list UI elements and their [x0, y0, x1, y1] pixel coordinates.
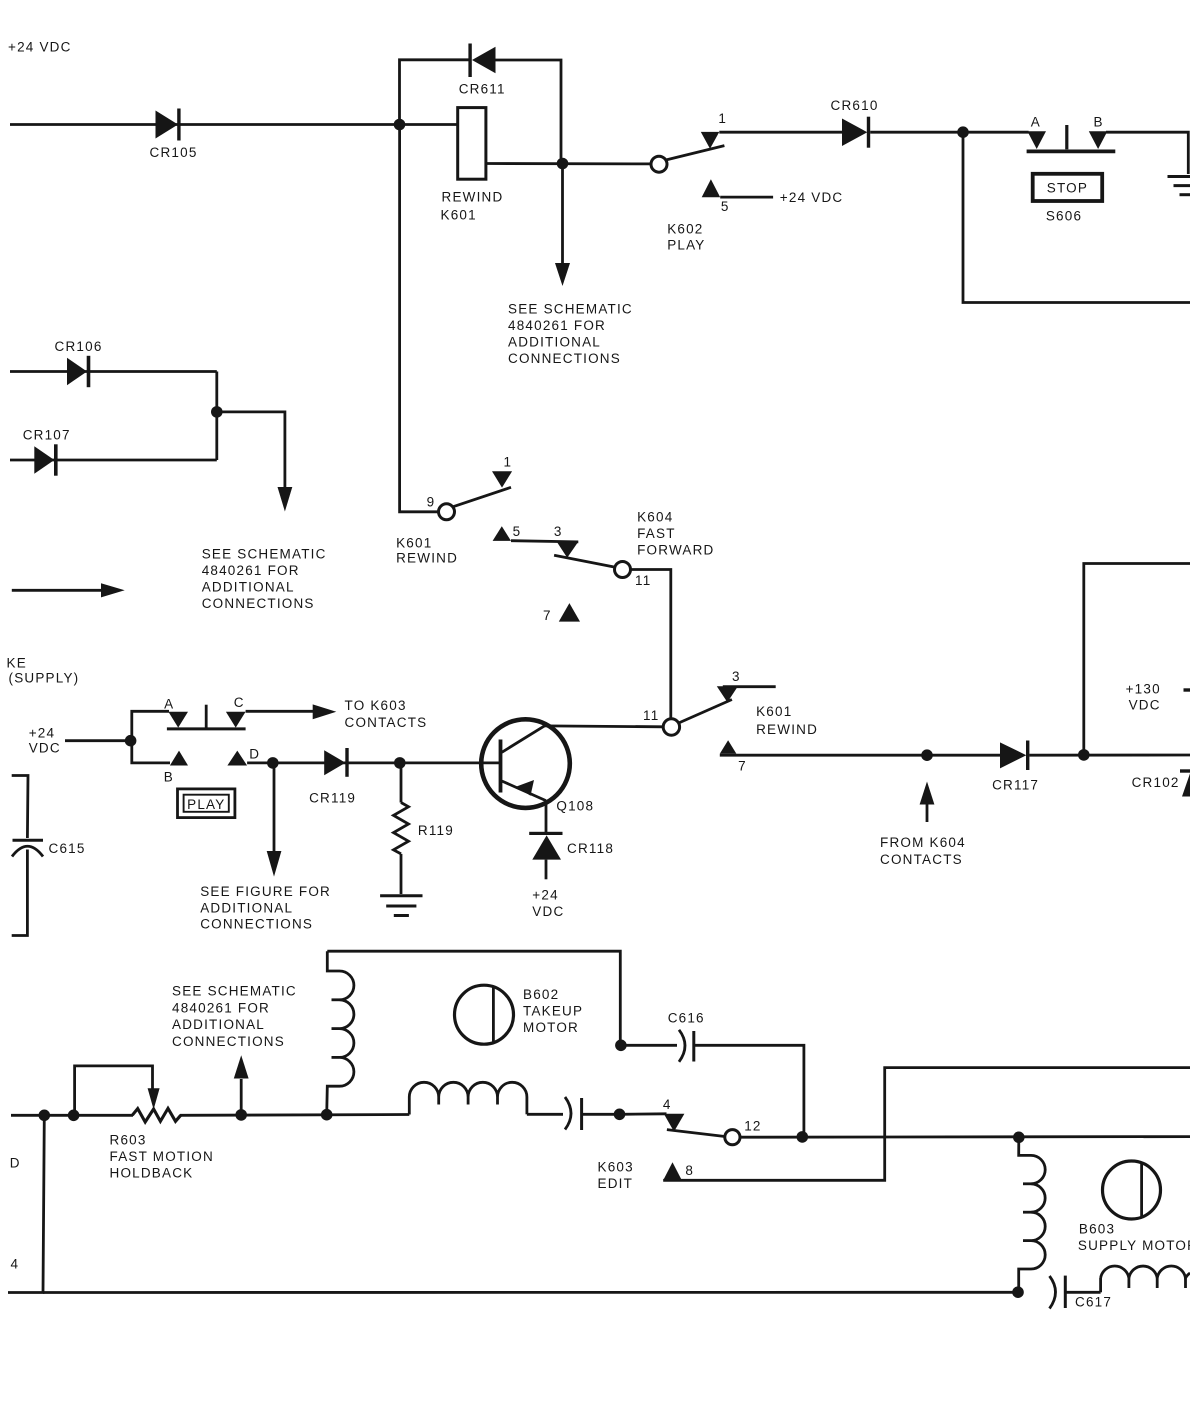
svg-text:CR102: CR102 [1132, 775, 1180, 790]
diode CR610 [831, 98, 879, 148]
wire: Q108 collector to switch 11 [544, 725, 664, 729]
svg-text:C616: C616 [668, 1011, 705, 1026]
wire: +24 VDC to relay contacts [65, 739, 132, 742]
svg-text:ADDITIONAL: ADDITIONAL [200, 900, 293, 915]
contact 1 of K602 [701, 132, 720, 149]
svg-text:FAST MOTION: FAST MOTION [110, 1149, 214, 1164]
relay contact D [227, 751, 247, 766]
switch K604 arm to pole 11 [554, 555, 618, 568]
wire: contact C arrow to K603 contacts [246, 710, 314, 713]
node +24 VDC (play relay feed) [29, 726, 61, 756]
relay contact B [170, 751, 188, 766]
svg-text:7: 7 [738, 758, 747, 773]
svg-text:CR105: CR105 [150, 145, 198, 160]
svg-text:11: 11 [643, 708, 659, 723]
svg-text:4840261 FOR: 4840261 FOR [202, 563, 300, 578]
svg-text:K602: K602 [667, 222, 703, 237]
svg-text:REWIND: REWIND [756, 722, 818, 737]
contact 8 of K603 (stub) [663, 1162, 682, 1180]
svg-text:TAKEUP: TAKEUP [523, 1004, 583, 1019]
svg-text:C: C [234, 695, 245, 710]
svg-text:(SUPPLY): (SUPPLY) [9, 671, 80, 686]
capacitor C617 [1050, 1276, 1113, 1310]
svg-text:8: 8 [685, 1163, 694, 1178]
svg-text:1: 1 [504, 454, 513, 469]
wire: contact 5 to contact 3 bar [511, 541, 578, 542]
switch S606 movable bar [1027, 149, 1116, 153]
wire: pole 12 to B603 line [740, 1135, 1190, 1138]
diode CR105 [150, 109, 198, 161]
svg-text:Q108: Q108 [556, 799, 594, 814]
svg-text:SEE SCHEMATIC: SEE SCHEMATIC [508, 302, 633, 317]
svg-text:4: 4 [663, 1097, 672, 1112]
svg-text:KE: KE [7, 655, 27, 670]
svg-text:K601: K601 [396, 535, 432, 550]
svg-text:CONNECTIONS: CONNECTIONS [508, 351, 621, 366]
svg-text:ADDITIONAL: ADDITIONAL [508, 335, 601, 350]
wire: bottom AC line [43, 1291, 1020, 1294]
wire: contact 7 to CR117 and +130 VDC [720, 754, 1000, 757]
wire: B602 top feed [327, 951, 620, 1045]
diode CR119 [309, 748, 356, 806]
svg-text:K603: K603 [598, 1160, 634, 1175]
svg-text:CR118: CR118 [567, 841, 614, 856]
note: FROM K604 CONTACTS [880, 835, 966, 867]
node: junction CR105 wire / CR611 branch [394, 119, 406, 131]
svg-text:CONTACTS: CONTACTS [345, 715, 428, 730]
svg-text:11: 11 [635, 573, 651, 588]
wire: arrow down to see-figure note [273, 763, 276, 853]
svg-text:A: A [164, 697, 174, 712]
svg-text:S606: S606 [1046, 208, 1082, 223]
wire: long vertical from top junction down to K601 rewind switch [400, 125, 439, 512]
relay contact C [226, 712, 246, 728]
svg-text:VDC: VDC [29, 741, 61, 756]
diode CR106 [10, 339, 217, 387]
wire: K604 pole 11 down to K601 rewind switch 11 [631, 570, 671, 720]
svg-text:D: D [249, 747, 260, 762]
node: junction from K604 contacts [921, 749, 933, 761]
svg-text:CR119: CR119 [309, 791, 356, 806]
node +130 VDC label [1126, 681, 1190, 712]
svg-text:R603: R603 [110, 1133, 147, 1148]
svg-text:9: 9 [427, 495, 436, 510]
svg-text:R119: R119 [418, 823, 454, 838]
svg-text:4: 4 [11, 1257, 20, 1272]
svg-text:+24 VDC: +24 VDC [8, 40, 72, 55]
resistor R119 [394, 763, 454, 894]
svg-text:4840261 FOR: 4840261 FOR [508, 318, 606, 333]
svg-text:EDIT: EDIT [598, 1176, 634, 1191]
wire: arrow down to see-schematic note (left) [217, 412, 285, 489]
svg-text:CR610: CR610 [831, 98, 879, 113]
node: junction capacitor / K603 contact 4 [614, 1109, 626, 1121]
wire: main AC line (bottom left) [11, 1114, 133, 1117]
node: junction before S606 [957, 126, 969, 138]
wire: CR611 to right vertical [496, 60, 562, 163]
svg-text:5: 5 [721, 199, 730, 214]
label K603 EDIT [598, 1160, 634, 1191]
svg-text:SUPPLY MOTOR: SUPPLY MOTOR [1078, 1238, 1190, 1253]
wire: up from junction to CR611 [400, 60, 470, 125]
svg-text:VDC: VDC [532, 904, 564, 919]
note: TO K603 CONTACTS [345, 698, 428, 730]
node: junction see-schematic arrow [235, 1109, 247, 1121]
svg-text:3: 3 [732, 669, 741, 684]
relay contact A [168, 712, 188, 728]
diode CR107 [10, 428, 217, 476]
node: junction left vertical [39, 1110, 51, 1122]
pushbutton S606 STOP [1033, 174, 1103, 224]
wire: CR106/CR107 tie vertical [215, 372, 218, 461]
note: see schematic 4840261 (left) [202, 547, 327, 612]
switch S606 STOP contact A [1027, 131, 1046, 149]
label K601 REWIND (lower switch) [756, 704, 818, 737]
node: junction B602 winding [321, 1109, 333, 1121]
svg-text:K601: K601 [441, 208, 477, 223]
capacitor C616 [621, 1011, 804, 1133]
svg-text:K604: K604 [637, 509, 673, 524]
node: junction below D [267, 757, 279, 769]
inductor: B603 main winding (vertical coil) [1019, 1137, 1045, 1292]
svg-text:C615: C615 [49, 841, 86, 856]
label K602 PLAY [667, 222, 705, 253]
node: junction R603 bypass [68, 1110, 80, 1122]
node: junction CR117 / +130 branch [1078, 749, 1090, 761]
svg-text:C617: C617 [1075, 1295, 1112, 1310]
svg-text:CONNECTIONS: CONNECTIONS [172, 1034, 285, 1049]
svg-text:PLAY: PLAY [667, 238, 705, 253]
wire: contact 8 runout [663, 1068, 1190, 1181]
wire: Q108 emitter down [545, 801, 548, 833]
note: see schematic 4840261 (bottom) [172, 984, 297, 1049]
svg-text:MOTOR: MOTOR [523, 1020, 579, 1035]
svg-text:TO K603: TO K603 [345, 698, 407, 713]
ground (below R119) [380, 896, 422, 916]
wire: arrow down to see-schematic note [561, 164, 564, 267]
svg-text:VDC: VDC [1129, 697, 1161, 712]
svg-text:A: A [1031, 114, 1041, 129]
contact 7 of lower K601 switch [720, 740, 737, 754]
svg-text:CONNECTIONS: CONNECTIONS [200, 917, 313, 932]
wire: contact 1 to CR610 [719, 131, 842, 134]
svg-text:ADDITIONAL: ADDITIONAL [202, 580, 295, 595]
switch K603 arm to pole 12 [667, 1130, 726, 1137]
svg-text:3: 3 [554, 524, 563, 539]
diode CR118 [529, 832, 614, 880]
svg-text:REWIND: REWIND [396, 551, 458, 566]
relay coil K601 REWIND [441, 108, 504, 223]
svg-text:CR106: CR106 [55, 339, 103, 354]
switch K601 REWIND pole (pin 9) [439, 504, 455, 520]
switch S606 STOP contact B [1089, 131, 1108, 149]
wire: coil to phase capacitor [527, 1113, 563, 1116]
ground (top right) [1168, 177, 1190, 195]
svg-text:FAST: FAST [637, 526, 676, 541]
switch S606 center post [1065, 125, 1068, 149]
wire: contact 5 stub to +24 VDC [720, 196, 773, 199]
svg-text:5: 5 [513, 524, 522, 539]
svg-text:CR611: CR611 [459, 82, 506, 97]
note: SEE FIGURE FOR ADDITIONAL CONNECTIONS [200, 884, 331, 932]
node: junction C616 tap [615, 1040, 627, 1052]
switch K602 PLAY (pole) [651, 156, 667, 172]
resistor R603 (variable) [110, 1108, 214, 1180]
wire: R603 wiper bypass [75, 1066, 153, 1115]
node: junction at relay output [557, 158, 569, 170]
contact 3 of K604 [557, 542, 578, 557]
svg-text:B603: B603 [1079, 1221, 1115, 1236]
relay contact center post [205, 705, 208, 729]
wire: relay K601 output to K602 switch [486, 162, 652, 165]
svg-text:4840261 FOR: 4840261 FOR [172, 1000, 270, 1015]
pushbutton PLAY [178, 789, 235, 818]
node +24 VDC (below CR118) [532, 888, 564, 919]
node: junction C616 return [797, 1131, 809, 1143]
wire: up branch to contact A [132, 711, 169, 740]
svg-text:K601: K601 [756, 704, 792, 719]
svg-text:PLAY: PLAY [187, 797, 225, 812]
svg-text:+24: +24 [532, 888, 559, 903]
diode CR102 (cut at edge) [1132, 769, 1190, 796]
node: junction B603 winding bottom [1012, 1286, 1024, 1298]
contact 7 of K604 (unconnected) [559, 603, 580, 622]
node: TAKE (SUPPLY) label [7, 655, 80, 685]
node: junction R119/Q108 base [394, 757, 406, 769]
node: junction B603 winding top [1013, 1132, 1025, 1144]
note: see schematic 4840261 (top) [508, 302, 633, 367]
wire: left vertical to bottom line [8, 1115, 44, 1292]
wire: arrow up from K604 contacts [926, 802, 929, 822]
contact 1 of K601 rewind switch [492, 471, 512, 487]
svg-text:STOP: STOP [1047, 181, 1088, 196]
svg-text:SEE SCHEMATIC: SEE SCHEMATIC [172, 984, 297, 999]
wire: +130 VDC branch [1084, 564, 1190, 755]
inductor: B602 phase winding (horizontal coil) [409, 1082, 527, 1114]
svg-text:ADDITIONAL: ADDITIONAL [172, 1017, 265, 1032]
diode CR117 [992, 741, 1039, 793]
svg-text:+24 VDC: +24 VDC [780, 190, 844, 205]
svg-text:B: B [164, 770, 174, 785]
transistor Q108 [481, 719, 594, 813]
diode CR611 [459, 44, 506, 97]
contact 5 of K602 [702, 179, 721, 197]
node: junction CR106/CR107 [211, 406, 223, 418]
relay contact movable bar A-C [167, 727, 246, 730]
svg-text:SEE FIGURE FOR: SEE FIGURE FOR [200, 884, 331, 899]
svg-text:1: 1 [718, 111, 727, 126]
svg-text:FROM K604: FROM K604 [880, 835, 966, 850]
wire: +24 VDC feed to K601 coil [10, 123, 458, 126]
svg-text:SEE SCHEMATIC: SEE SCHEMATIC [202, 547, 327, 562]
svg-text:7: 7 [543, 608, 552, 623]
label K601 REWIND [396, 535, 458, 565]
svg-text:B: B [1093, 114, 1103, 129]
switch K601 rewind pole 11 (lower) [663, 719, 679, 735]
wire: down branch to contact B [132, 741, 170, 763]
node: junction of A/B branches [125, 735, 137, 747]
motor B603 SUPPLY [1078, 1161, 1190, 1253]
contact 3 of lower K601 switch [717, 686, 738, 702]
svg-text:HOLDBACK: HOLDBACK [110, 1166, 194, 1181]
svg-text:CR107: CR107 [23, 428, 71, 443]
svg-text:+130: +130 [1126, 681, 1161, 696]
wire: arrow pointing right (left edge) [12, 589, 103, 592]
inductor: B602 main winding (vertical coil) [327, 951, 354, 1114]
capacitor (B602 phase) [565, 1097, 614, 1130]
wire: contact B to ground [1106, 132, 1188, 174]
wire: CR610 to S606 [870, 131, 1028, 134]
wire: arrow up to see-schematic note (bottom) [240, 1079, 243, 1115]
svg-text:CR117: CR117 [992, 778, 1039, 793]
svg-text:12: 12 [744, 1118, 761, 1133]
wire: junction down and right (S606 return) [963, 132, 1190, 302]
svg-text:CONNECTIONS: CONNECTIONS [202, 596, 315, 611]
switch K603 EDIT contact 4 [620, 1112, 667, 1115]
switch K604 FAST FORWARD contact 5 [493, 526, 511, 541]
svg-text:B602: B602 [523, 987, 559, 1002]
motor B602 TAKEUP [455, 985, 584, 1044]
svg-text:+24: +24 [29, 726, 56, 741]
inductor: B603 phase winding (horizontal coil) [1101, 1266, 1190, 1292]
svg-text:FORWARD: FORWARD [637, 542, 714, 557]
wire: contact D to Q108 base [247, 762, 500, 765]
svg-text:D: D [10, 1156, 21, 1171]
label K604 FAST FORWARD [637, 509, 714, 557]
capacitor C615 [12, 776, 86, 936]
svg-text:REWIND: REWIND [442, 189, 504, 204]
svg-text:CONTACTS: CONTACTS [880, 852, 963, 867]
